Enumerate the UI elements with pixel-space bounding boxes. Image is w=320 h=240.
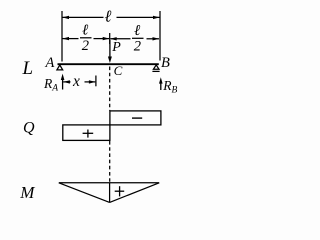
svg-text:ℓ: ℓ	[134, 23, 140, 39]
beam AB	[58, 63, 159, 65]
support B triangle	[153, 65, 159, 69]
svg-text:M: M	[19, 183, 35, 202]
arrowhead x left	[63, 80, 70, 83]
svg-text:ℓ: ℓ	[82, 23, 88, 39]
plus sign in M	[115, 186, 125, 196]
Q diagram: positive rectangle (left, below axis)	[63, 125, 110, 140]
reaction R_A arrow	[61, 74, 65, 90]
svg-text:B: B	[161, 55, 170, 71]
x dimension line	[63, 76, 96, 87]
fraction l/2 left : bar	[80, 37, 92, 39]
svg-text:x: x	[72, 73, 80, 90]
plus sign in Q	[83, 130, 94, 138]
fraction l/2 right : bar	[132, 37, 144, 39]
support B ground line	[152, 70, 159, 72]
Q diagram: negative rectangle (right, above axis)	[110, 111, 161, 125]
force P arrow	[108, 40, 112, 63]
M centre ordinate	[109, 183, 111, 203]
arrowhead l left	[62, 16, 69, 19]
reaction R_B arrow	[159, 77, 163, 90]
extension line left (over support A)	[61, 11, 63, 62]
arrowhead l right	[153, 16, 160, 19]
svg-text:ℓ: ℓ	[105, 7, 112, 26]
svg-text:2: 2	[82, 38, 89, 54]
dashed centre line (beam to Q diagram)	[109, 67, 111, 111]
arrowhead l/2-left left	[62, 37, 69, 40]
arrowhead l/2-right right	[153, 37, 160, 40]
arrowhead l/2-left right	[103, 37, 110, 40]
center tick between l/2 dims	[109, 33, 111, 44]
svg-text:Q: Q	[23, 119, 35, 136]
svg-text:2: 2	[134, 38, 141, 54]
svg-text:C: C	[114, 63, 123, 78]
support A triangle	[57, 65, 63, 70]
M left slope	[59, 183, 110, 203]
arrowhead x right	[89, 80, 96, 83]
dimension line l/2 right	[110, 38, 130, 40]
M top edge	[59, 182, 159, 184]
dimension line l (top)	[63, 16, 104, 18]
extension line right (over support B)	[159, 11, 161, 61]
arrowhead l/2-right left	[110, 37, 117, 40]
dimension line l/2 left	[63, 38, 79, 40]
svg-text:P: P	[111, 40, 121, 55]
svg-text:A: A	[45, 55, 55, 71]
minus sign in Q	[132, 117, 142, 119]
svg-text:L: L	[22, 58, 34, 79]
M right slope	[110, 183, 160, 203]
x dimension right tick	[95, 76, 97, 87]
M diagram triangle	[59, 183, 159, 203]
dashed centre line (Q to M diagram)	[109, 141, 111, 183]
